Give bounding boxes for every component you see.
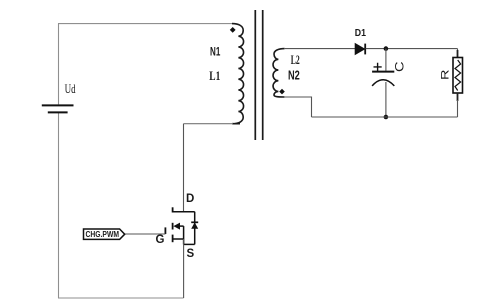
- polarity diamond primary: [230, 27, 236, 33]
- wire: capacitor top lead: [385, 49, 387, 71]
- wire: right vertical top (to resistor): [457, 49, 459, 58]
- wire: diode cathode to output node and right: [366, 48, 458, 50]
- winding N1/L1 primary: [232, 24, 244, 124]
- transistor Q1 MOSFET: source bar: [173, 238, 184, 240]
- wire: bottom horizontal of secondary loop: [312, 116, 458, 118]
- label D1: [355, 27, 366, 39]
- svg-text:S: S: [187, 248, 195, 260]
- signal flag CHG.PWM: [84, 229, 125, 239]
- node: junction dot top (cap + wire): [384, 46, 389, 51]
- wire: secondary top to diode: [284, 48, 355, 50]
- transistor Q1 MOSFET: channel ticks: [172, 207, 174, 242]
- diode D1: [355, 44, 365, 55]
- wire: top horizontal from source to transformer primary: [58, 23, 233, 25]
- winding L2/N2 secondary: [273, 49, 284, 97]
- battery Ud: [42, 105, 74, 112]
- wire: drain vertical: [183, 124, 185, 212]
- wire: left vertical above battery: [58, 24, 60, 105]
- svg-text:G: G: [156, 234, 165, 246]
- capacitor C (polarized): [372, 63, 394, 86]
- polarity diamond secondary: [279, 89, 285, 95]
- label N1: [210, 44, 221, 58]
- transistor Q1 MOSFET: drain bar: [173, 211, 195, 213]
- svg-text:L1: L1: [209, 69, 220, 83]
- transistor Q1 MOSFET: body arrow: [173, 223, 183, 230]
- label L1: [209, 69, 220, 83]
- resistor R: [453, 50, 463, 101]
- svg-text:L2: L2: [291, 52, 300, 67]
- label S: [187, 248, 195, 260]
- label L2: [291, 52, 300, 67]
- label G: [156, 234, 165, 246]
- svg-text:Ud: Ud: [65, 81, 76, 96]
- wire: source vertical to bottom rail: [183, 239, 185, 298]
- wire: secondary bottom step: [284, 97, 312, 117]
- svg-text:D: D: [186, 193, 194, 205]
- node: junction dot bottom: [384, 115, 389, 120]
- wire: bottom horizontal: [58, 297, 184, 299]
- svg-text:R: R: [440, 69, 452, 80]
- svg-text:CHG.PWM: CHG.PWM: [86, 230, 120, 239]
- transistor Q1 MOSFET: body diode branch: [184, 212, 199, 245]
- wire: primary bottom horizontal to drain node: [184, 123, 234, 125]
- svg-text:C: C: [395, 61, 407, 72]
- transistor Q1 MOSFET: gate bar: [164, 227, 166, 234]
- label R (rotated): [440, 69, 452, 80]
- wire: left vertical below battery: [58, 113, 60, 298]
- label Ud: [65, 81, 76, 96]
- label C (rotated): [395, 61, 407, 72]
- transistor Q1 MOSFET: source-body vertical: [183, 226, 185, 244]
- svg-text:D1: D1: [355, 27, 366, 39]
- svg-text:N1: N1: [210, 44, 221, 58]
- wire: right vertical bottom: [457, 100, 459, 117]
- wire: capacitor bottom lead: [385, 82, 387, 117]
- label N2: [288, 68, 300, 83]
- label D: [186, 193, 194, 205]
- transformer core: [255, 10, 262, 140]
- wire: gate wire from PWM flag: [125, 233, 166, 235]
- svg-text:N2: N2: [288, 68, 300, 83]
